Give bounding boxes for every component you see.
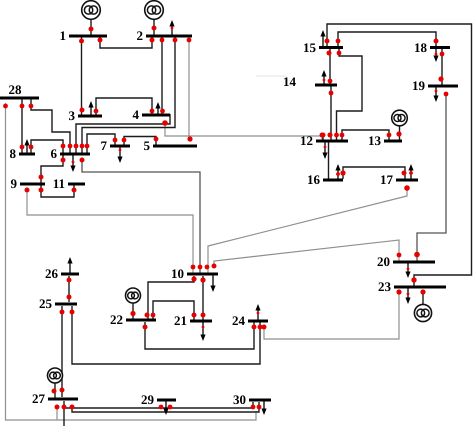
svg-text:12: 12 bbox=[300, 133, 313, 148]
svg-text:2: 2 bbox=[137, 28, 144, 43]
svg-text:30: 30 bbox=[233, 392, 246, 407]
svg-text:23: 23 bbox=[378, 279, 392, 294]
svg-text:13: 13 bbox=[368, 133, 382, 148]
svg-text:10: 10 bbox=[171, 266, 184, 281]
svg-text:11: 11 bbox=[53, 176, 65, 191]
svg-text:9: 9 bbox=[11, 176, 18, 191]
svg-text:16: 16 bbox=[307, 172, 321, 187]
svg-text:17: 17 bbox=[380, 172, 394, 187]
svg-text:26: 26 bbox=[45, 266, 59, 281]
svg-text:8: 8 bbox=[10, 146, 17, 161]
svg-text:21: 21 bbox=[174, 313, 187, 328]
svg-text:19: 19 bbox=[412, 78, 426, 93]
svg-text:29: 29 bbox=[141, 392, 155, 407]
svg-text:22: 22 bbox=[110, 312, 123, 327]
svg-text:18: 18 bbox=[414, 40, 428, 55]
svg-text:20: 20 bbox=[377, 254, 390, 269]
svg-text:4: 4 bbox=[133, 107, 140, 122]
svg-text:3: 3 bbox=[69, 108, 76, 123]
svg-text:1: 1 bbox=[60, 28, 67, 43]
svg-text:25: 25 bbox=[39, 296, 53, 311]
svg-text:14: 14 bbox=[283, 74, 297, 89]
svg-text:27: 27 bbox=[32, 391, 46, 406]
svg-text:6: 6 bbox=[51, 146, 58, 161]
svg-text:24: 24 bbox=[232, 313, 246, 328]
svg-text:5: 5 bbox=[144, 138, 151, 153]
svg-text:28: 28 bbox=[9, 82, 23, 97]
svg-text:15: 15 bbox=[303, 40, 317, 55]
svg-text:7: 7 bbox=[101, 138, 108, 153]
